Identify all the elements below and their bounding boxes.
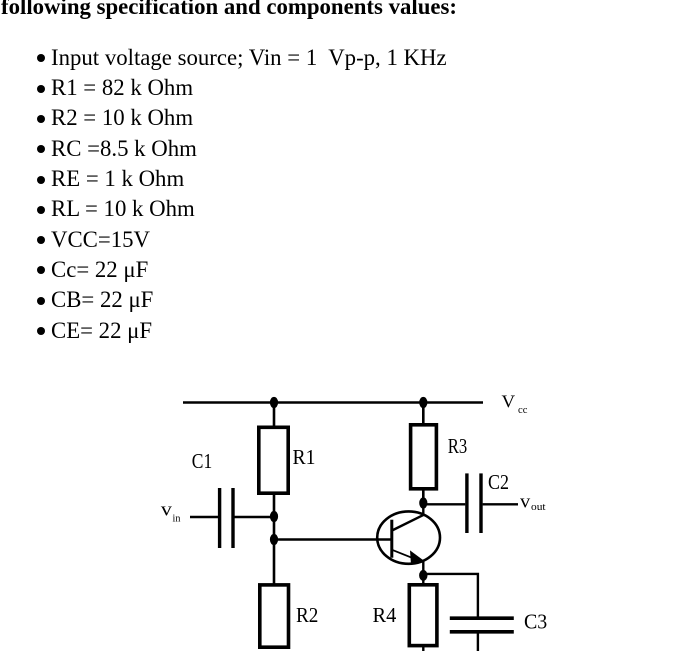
svg-text:v: v xyxy=(161,499,173,520)
node junction dot C1-R1 xyxy=(270,511,278,522)
transistor Q1 base bar xyxy=(390,520,393,558)
capacitor C2 xyxy=(467,473,481,533)
wire R4 bottom stub xyxy=(422,647,424,651)
title line (cut off at top) xyxy=(1,0,457,18)
wire emitter node to C3 branch xyxy=(423,574,478,617)
resistor R2 xyxy=(260,585,289,647)
resistor R1 xyxy=(259,427,288,493)
wire collector up to node xyxy=(422,503,424,515)
bullet item 7 xyxy=(51,229,150,251)
svg-text:R3: R3 xyxy=(448,434,468,458)
label vout xyxy=(520,491,546,513)
node junction dot on rail above R1 xyxy=(270,397,278,408)
capacitor C3 xyxy=(450,618,514,632)
svg-text:V: V xyxy=(502,392,516,412)
capacitor C1 xyxy=(220,488,233,548)
node junction dot base xyxy=(270,534,278,545)
wire rail to R1 xyxy=(273,403,276,427)
bullet item 9 xyxy=(51,289,153,311)
bullet item 2 xyxy=(51,77,193,99)
svg-text:R4: R4 xyxy=(373,603,397,627)
transistor Q1 emitter arrowhead xyxy=(410,550,424,564)
node junction dot on rail above R3 xyxy=(419,397,427,408)
svg-text:cc: cc xyxy=(518,404,528,416)
svg-text:C3: C3 xyxy=(524,610,547,634)
bullet item 8 xyxy=(51,259,148,281)
wire C1 to node xyxy=(235,516,275,518)
svg-text:C2: C2 xyxy=(488,470,509,494)
bullet item 10 xyxy=(51,320,152,342)
svg-text:v: v xyxy=(520,491,531,512)
wire collector node to C2 xyxy=(423,503,465,505)
node junction dot emitter xyxy=(419,570,427,581)
wire emitter to node xyxy=(422,560,424,576)
transistor Q1 body circle xyxy=(377,511,440,563)
transistor Q1 collector diagonal xyxy=(392,515,424,531)
label Vcc xyxy=(502,392,528,416)
wire R3 bottom to collector node xyxy=(422,488,425,504)
transistor Q1 emitter diagonal xyxy=(392,550,413,558)
wire R1 bottom to base node xyxy=(273,494,276,584)
svg-text:C1: C1 xyxy=(192,449,212,473)
resistor R3 xyxy=(411,425,437,489)
bullet item 1 xyxy=(51,47,447,69)
bullet item 5 xyxy=(51,168,184,190)
bullet item 4 xyxy=(51,138,197,160)
resistor R4 xyxy=(409,585,437,646)
wire Vcc top rail xyxy=(183,401,483,404)
wire vin lead xyxy=(190,516,218,518)
svg-text:R2: R2 xyxy=(296,603,318,627)
svg-text:out: out xyxy=(531,501,546,513)
node junction dot collector xyxy=(419,497,427,508)
svg-text:in: in xyxy=(173,512,181,524)
label vin xyxy=(161,499,181,524)
wire C2 to vout xyxy=(483,503,518,505)
wire C3 bottom stub xyxy=(477,634,479,651)
wire base node to transistor base xyxy=(274,538,391,540)
bullet item 3 xyxy=(51,107,193,129)
svg-text:R1: R1 xyxy=(293,445,316,469)
wire emitter node to R4 xyxy=(422,575,424,584)
wire rail to R3 xyxy=(422,403,425,425)
bullet item 6 xyxy=(51,198,195,220)
